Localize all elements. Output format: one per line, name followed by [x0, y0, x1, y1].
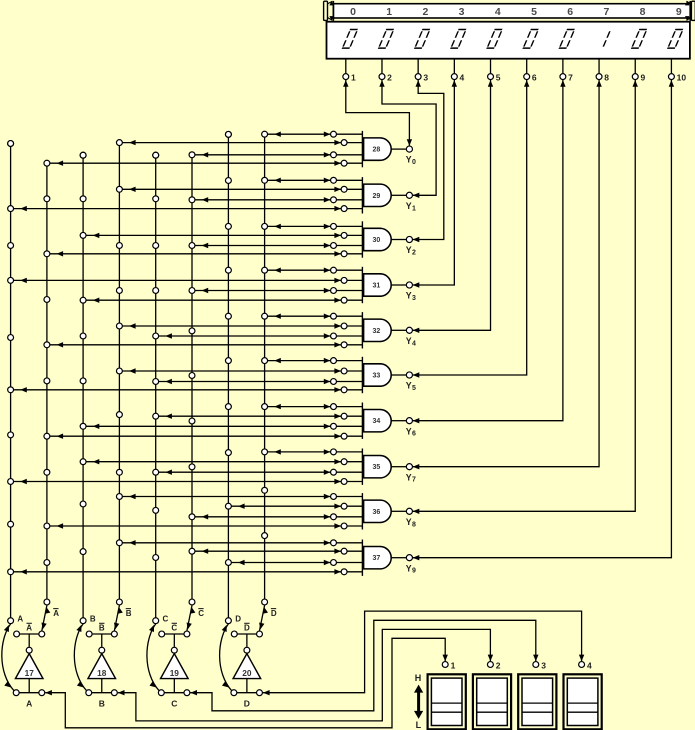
display digit cell 4 showing 0 — [487, 30, 503, 49]
display pin stub 2 — [381, 59, 383, 73]
wire C-bar bus to gate 37 input 2 — [192, 549, 362, 554]
and gate 31 input bar — [361, 267, 363, 303]
gate 34 output wire — [391, 420, 406, 422]
svg-text:Y: Y — [406, 291, 412, 301]
terminal label 8 — [604, 73, 609, 83]
label C-bar at bus bottom — [198, 609, 204, 618]
svg-text:28: 28 — [373, 147, 381, 154]
wire D-bar bus to gate 31 input 1 — [265, 268, 363, 273]
junction node on D-bar bus for gate 30 — [262, 223, 268, 229]
svg-text:Y: Y — [406, 155, 412, 165]
and gate 28 body — [364, 138, 392, 160]
switch 4 body — [564, 674, 602, 729]
joint node on C-bar bus — [189, 418, 195, 424]
svg-text:D: D — [244, 624, 250, 633]
joint node on B bus — [80, 333, 86, 339]
gate 32 input node 3 — [331, 333, 337, 339]
svg-text:L: L — [416, 720, 422, 730]
svg-text:C: C — [171, 698, 177, 708]
wire A bus to gate 29 input 4 — [11, 206, 363, 211]
joint node on C bus — [153, 196, 159, 202]
svg-text:33: 33 — [373, 373, 381, 380]
wire D-bar bus to gate 34 input 1 — [265, 404, 363, 409]
junction node on C-bar bus for gate 30 — [189, 243, 195, 249]
label D below inverter — [244, 698, 250, 708]
svg-text:7: 7 — [603, 6, 609, 18]
gate 36 input node 4 — [341, 523, 347, 529]
gate 37 input node 4 — [341, 569, 347, 575]
node D-bar at bus bottom — [262, 599, 268, 605]
gate 34 input node 1 — [331, 404, 337, 410]
display digit cell 2 showing 0 — [414, 30, 430, 49]
wire C bus to gate 35 input 3 — [156, 470, 363, 475]
gate 36 input node 1 — [331, 494, 337, 500]
and gate 37 input bar — [361, 540, 363, 576]
label A-bar above inverter — [26, 623, 32, 632]
and gate 37 body — [364, 547, 392, 569]
svg-text:3: 3 — [412, 295, 416, 302]
wire D-bar bus to gate 28 input 1 — [265, 132, 363, 137]
label Y2 — [406, 245, 416, 256]
junction node on C-bar bus for gate 29 — [189, 197, 195, 203]
display digit cell 8 showing 0 — [631, 30, 647, 49]
wire inverter 18 input to switch 2 — [118, 629, 493, 721]
terminal label 4 — [460, 73, 465, 83]
svg-text:9: 9 — [676, 6, 682, 18]
gate 31 input node 4 — [341, 297, 347, 303]
wire A-bar bus to gate 32 input 4 — [47, 342, 363, 347]
wire D-bar bus to gate 33 input 1 — [265, 358, 363, 363]
wire B-bar bus to gate 36 input 1 — [119, 494, 362, 499]
label Y5 — [406, 381, 416, 392]
display pin stub 4 — [453, 59, 455, 73]
and gate 32 input bar — [361, 312, 363, 348]
joint node on C-bar bus — [189, 328, 195, 334]
terminal label 2 — [387, 73, 392, 83]
output node Y8 — [406, 508, 412, 514]
svg-text:8: 8 — [640, 6, 646, 18]
svg-text:D: D — [244, 698, 250, 708]
wire terminal 7 to Y6 — [413, 80, 566, 423]
output bar right node — [257, 631, 263, 637]
wire D bus to gate 36 input 2 — [228, 504, 362, 509]
terminal label 1 — [351, 73, 356, 83]
svg-text:4: 4 — [587, 660, 592, 670]
joint node on D bus — [225, 267, 231, 273]
label L — [416, 720, 422, 730]
gate 28 output wire — [391, 148, 406, 150]
gate 30 input node 2 — [341, 232, 347, 238]
gate 29 input node 2 — [341, 186, 347, 192]
joint node on B-bar bus — [116, 243, 122, 249]
svg-text:5: 5 — [531, 6, 537, 18]
svg-text:Y: Y — [406, 201, 412, 211]
junction node on C-bar bus for gate 28 — [189, 152, 195, 158]
display strip right clamp — [685, 1, 695, 21]
joint node on D bus — [225, 223, 231, 229]
node D at bus bottom — [225, 618, 231, 624]
junction node on D-bar bus for gate 34 — [262, 404, 268, 410]
bus line D-bar — [264, 134, 266, 602]
inverter 20 output bar — [234, 634, 259, 647]
junction node on A-bar bus for gate 36 — [44, 523, 50, 529]
svg-text:1: 1 — [386, 6, 392, 18]
joint node on C bus — [153, 152, 159, 158]
and gate 35 body — [364, 456, 392, 478]
svg-text:36: 36 — [373, 509, 381, 516]
node C-bar at bus bottom — [189, 599, 195, 605]
output bar right node — [184, 631, 190, 637]
terminal node 3 — [415, 74, 421, 80]
svg-text:7: 7 — [412, 477, 416, 484]
bus line A-bar — [46, 163, 48, 602]
and gate 29 body — [364, 184, 392, 206]
svg-text:0: 0 — [412, 159, 416, 166]
svg-text:1: 1 — [351, 73, 356, 83]
svg-text:B: B — [99, 624, 105, 633]
svg-text:9: 9 — [412, 568, 416, 575]
gate 35 output wire — [391, 466, 406, 468]
display digit cell 7 showing 1 — [603, 31, 610, 46]
inverter 18 input bar — [89, 692, 115, 694]
joint node on D-bar bus — [262, 487, 268, 493]
wire A-bar bus to gate 34 input 4 — [47, 434, 363, 439]
terminal label 9 — [640, 73, 645, 83]
inverter 18 output bar — [89, 634, 114, 647]
junction node on C-bar bus for gate 37 — [189, 548, 195, 554]
joint node on A bus — [8, 432, 14, 438]
input bar right node — [257, 690, 263, 696]
terminal label 3 — [423, 73, 428, 83]
inverter 19 triangle — [161, 654, 189, 679]
svg-text:C: C — [171, 624, 177, 633]
joint node on C bus — [153, 288, 159, 294]
label C below inverter — [171, 698, 177, 708]
junction node on A-bar bus for gate 30 — [44, 251, 50, 257]
joint node on D-bar bus — [262, 533, 268, 539]
joint node on B-bar bus — [116, 288, 122, 294]
output node Y1 — [406, 192, 412, 198]
svg-text:32: 32 — [373, 328, 381, 335]
input bar right node — [184, 690, 190, 696]
gate 37 output wire — [391, 557, 406, 559]
label B-bar above inverter — [99, 623, 105, 632]
junction node on C bus for gate 32 — [153, 333, 159, 339]
wire terminal 3 to Y2 — [413, 80, 444, 242]
wire C-bar bus to gate 29 input 3 — [192, 197, 362, 202]
wire inverter 20 input to switch 4 — [263, 611, 584, 695]
svg-text:Y: Y — [406, 336, 412, 346]
terminal label 5 — [496, 73, 501, 83]
gate 29 output wire — [391, 194, 406, 196]
input bar right node — [39, 690, 45, 696]
junction node on B bus for gate 34 — [80, 423, 86, 429]
label A below inverter — [26, 698, 32, 708]
inverter 19 input bar — [161, 692, 187, 694]
gate 34 input node 3 — [331, 423, 337, 429]
label C-bar above inverter — [171, 623, 177, 632]
and gate 34 body — [364, 410, 392, 432]
svg-text:30: 30 — [373, 237, 381, 244]
svg-text:C: C — [198, 609, 204, 618]
junction node on D-bar bus for gate 32 — [262, 313, 268, 319]
wire terminal 2 to Y1 — [379, 80, 436, 198]
svg-text:5: 5 — [412, 385, 416, 392]
input bar left node — [158, 690, 164, 696]
junction node on C bus for gate 33 — [153, 379, 159, 385]
joint node on A-bar bus — [44, 297, 50, 303]
gate 34 input node 2 — [341, 413, 347, 419]
output bar left node — [86, 631, 92, 637]
svg-text:4: 4 — [412, 340, 416, 347]
wire inverter 19 input to switch 3 — [190, 620, 538, 711]
joint node on D bus — [225, 450, 231, 456]
joint node on B bus — [80, 196, 86, 202]
wire A-bar bus to gate 30 input 4 — [47, 251, 363, 256]
joint node on A-bar bus — [44, 560, 50, 566]
junction node on A bus for gate 31 — [8, 277, 14, 283]
wire A bus to gate 35 input 4 — [11, 479, 363, 484]
terminal label 7 — [568, 73, 573, 83]
terminal node 4 — [451, 74, 457, 80]
svg-text:4: 4 — [495, 6, 501, 18]
and gate 31 body — [364, 274, 392, 296]
inverter 19 input node top — [171, 647, 177, 653]
svg-text:B: B — [99, 698, 105, 708]
junction node on B-bar bus for gate 29 — [116, 186, 122, 192]
gate 37 input node 2 — [341, 548, 347, 554]
label H — [415, 673, 422, 683]
svg-text:6: 6 — [412, 431, 416, 438]
and gate 36 body — [364, 500, 392, 522]
switch terminal node 4 — [579, 662, 585, 668]
wire C-bar bus to inverter 19 output — [187, 605, 196, 630]
wire C-bar bus to gate 31 input 3 — [192, 288, 362, 293]
display strip left clamp — [324, 1, 334, 21]
output bar left node — [14, 631, 20, 637]
wire C-bar bus to gate 36 input 3 — [192, 514, 362, 519]
wire A-bar bus to inverter 17 output — [42, 605, 51, 630]
label B below inverter — [99, 698, 105, 708]
wire A-bar bus to gate 28 input 4 — [47, 161, 363, 166]
svg-text:5: 5 — [496, 73, 501, 83]
top end node of C bus — [153, 152, 159, 158]
label Y6 — [406, 426, 416, 437]
inverter 20 output stub — [246, 679, 248, 693]
svg-text:20: 20 — [242, 668, 252, 678]
svg-text:B: B — [90, 614, 96, 623]
display pin stub 5 — [490, 59, 492, 73]
joint node on B bus — [80, 152, 86, 158]
svg-text:A: A — [17, 614, 23, 623]
label C at bus bottom — [163, 614, 169, 623]
terminal label 10 — [677, 73, 687, 83]
gate 35 input node 4 — [341, 479, 347, 485]
display digit cell 6 showing 0 — [559, 30, 575, 49]
bus line C-bar — [191, 155, 193, 602]
input bar right node — [111, 690, 117, 696]
junction node on A bus for gate 29 — [8, 206, 14, 212]
input bar left node — [86, 690, 92, 696]
inverter 17 output stub — [28, 679, 30, 693]
svg-text:3: 3 — [459, 6, 465, 18]
junction node on A-bar bus for gate 32 — [44, 342, 50, 348]
junction node on D-bar bus for gate 29 — [262, 177, 268, 183]
switch terminal node 3 — [533, 662, 539, 668]
gate 32 input node 4 — [341, 342, 347, 348]
node A at bus bottom — [8, 618, 14, 624]
node A-bar at bus bottom — [44, 599, 50, 605]
switch terminal label 1 — [451, 660, 456, 670]
wire B-bar bus to gate 37 input 1 — [119, 540, 362, 545]
gate 28 input node 1 — [331, 131, 337, 137]
joint node on C bus — [153, 555, 159, 561]
joint node on D bus — [225, 313, 231, 319]
terminal node 8 — [596, 74, 602, 80]
gate 28 input node 3 — [331, 152, 337, 158]
wire D-bar bus to gate 32 input 1 — [265, 314, 363, 319]
gate 33 input node 4 — [341, 387, 347, 393]
gate 30 input node 1 — [331, 223, 337, 229]
display pin stub 7 — [562, 59, 564, 73]
label Y4 — [406, 336, 416, 347]
terminal node 7 — [560, 74, 566, 80]
junction node on D-bar bus for gate 33 — [262, 358, 268, 364]
inverter 20 input bar — [234, 692, 260, 694]
feedback arc wire A — [2, 624, 14, 691]
gate 31 input node 2 — [341, 277, 347, 283]
display digit cell 1 showing 0 — [378, 30, 394, 49]
wire terminal 10 to Y9 — [413, 80, 674, 560]
svg-text:4: 4 — [460, 73, 465, 83]
inverter 18 output stub — [101, 679, 103, 693]
feedback arc wire B — [74, 624, 86, 691]
label Y7 — [406, 472, 416, 483]
inverter 17 input bar — [16, 692, 42, 694]
gate 36 input node 2 — [341, 503, 347, 509]
gate 28 input node 4 — [341, 160, 347, 166]
label D-bar at bus bottom — [271, 609, 277, 618]
display pin stub 1 — [345, 59, 347, 73]
switch terminal node 1 — [442, 662, 448, 668]
feedback arc wire D — [220, 624, 232, 691]
wire D-bar bus to gate 35 input 1 — [265, 449, 363, 454]
wire B bus to gate 34 input 3 — [83, 424, 362, 429]
junction node on D bus for gate 36 — [225, 503, 231, 509]
output bar right node — [39, 631, 45, 637]
inverter 17 input node top — [26, 647, 32, 653]
svg-text:10: 10 — [677, 73, 687, 83]
input bar left node — [231, 690, 237, 696]
joint node on A bus — [8, 243, 14, 249]
gate 36 output wire — [391, 510, 406, 512]
switch terminal node 2 — [487, 662, 493, 668]
switch terminal label 2 — [496, 660, 501, 670]
svg-text:35: 35 — [373, 464, 381, 471]
node C at bus bottom — [153, 618, 159, 624]
wire C-bar bus to gate 28 input 3 — [192, 152, 362, 157]
junction node on B-bar bus for gate 37 — [116, 540, 122, 546]
svg-text:18: 18 — [97, 668, 107, 678]
junction node on C-bar bus for gate 36 — [189, 514, 195, 520]
display pin stub 8 — [598, 59, 600, 73]
label D at bus bottom — [235, 614, 241, 623]
display pin stub 6 — [526, 59, 528, 73]
label A-bar at bus bottom — [53, 609, 59, 618]
inverter 20 triangle — [233, 654, 261, 679]
joint node on A bus — [8, 521, 14, 527]
seven-segment display box — [327, 22, 690, 59]
svg-text:Y: Y — [406, 381, 412, 391]
label Y3 — [406, 291, 416, 302]
junction node on B bus for gate 35 — [80, 459, 86, 465]
bus line A — [10, 144, 12, 621]
junction node on A-bar bus for gate 28 — [44, 160, 50, 166]
svg-text:2: 2 — [412, 250, 416, 257]
joint node on A bus — [8, 335, 14, 341]
and gate 33 input bar — [361, 357, 363, 393]
wire D-bar bus to gate 29 input 1 — [265, 178, 363, 183]
junction node on B-bar bus for gate 32 — [116, 323, 122, 329]
junction node on C bus for gate 35 — [153, 469, 159, 475]
bus line B — [82, 155, 84, 621]
wire A-bar bus to gate 36 input 4 — [47, 523, 363, 528]
gate 34 input node 4 — [341, 433, 347, 439]
svg-text:Y: Y — [406, 563, 412, 573]
terminal node 6 — [524, 74, 530, 80]
wire inverter 17 input to switch 1 — [45, 638, 448, 728]
output node Y2 — [406, 236, 412, 242]
wire B bus to gate 31 input 4 — [83, 298, 362, 303]
output bar left node — [159, 631, 165, 637]
junction node on A-bar bus for gate 34 — [44, 433, 50, 439]
wire terminal 4 to Y3 — [413, 80, 457, 288]
gate 31 input node 3 — [331, 288, 337, 294]
and gate 32 body — [364, 319, 392, 341]
wire D-bar bus to inverter 20 output — [259, 605, 268, 630]
junction node on D-bar bus for gate 28 — [262, 131, 268, 137]
wire terminal 8 to Y7 — [413, 80, 602, 469]
bus line D — [227, 134, 229, 620]
and gate 30 input bar — [361, 221, 363, 257]
svg-text:2: 2 — [496, 660, 501, 670]
svg-text:A: A — [26, 624, 32, 633]
feedback arc wire C — [147, 624, 159, 691]
joint node on B bus — [80, 501, 86, 507]
svg-text:34: 34 — [373, 418, 381, 425]
label Y9 — [406, 563, 416, 574]
svg-text:D: D — [235, 614, 241, 623]
svg-text:2: 2 — [387, 73, 392, 83]
terminal node 9 — [632, 74, 638, 80]
svg-text:Y: Y — [406, 426, 412, 436]
joint node on A-bar bus — [44, 469, 50, 475]
switch 3 body — [518, 674, 556, 729]
junction node on D-bar bus for gate 31 — [262, 267, 268, 273]
gate 32 input node 1 — [331, 313, 337, 319]
svg-text:7: 7 — [568, 73, 573, 83]
node B-bar at bus bottom — [116, 599, 122, 605]
input bar left node — [13, 690, 19, 696]
label A at bus bottom — [17, 614, 23, 623]
joint node on C bus — [153, 507, 159, 513]
svg-text:A: A — [26, 698, 32, 708]
and gate 33 body — [364, 364, 392, 386]
svg-text:19: 19 — [170, 668, 180, 678]
gate 33 input node 1 — [331, 358, 337, 364]
joint node on B bus — [80, 378, 86, 384]
output bar left node — [231, 631, 237, 637]
